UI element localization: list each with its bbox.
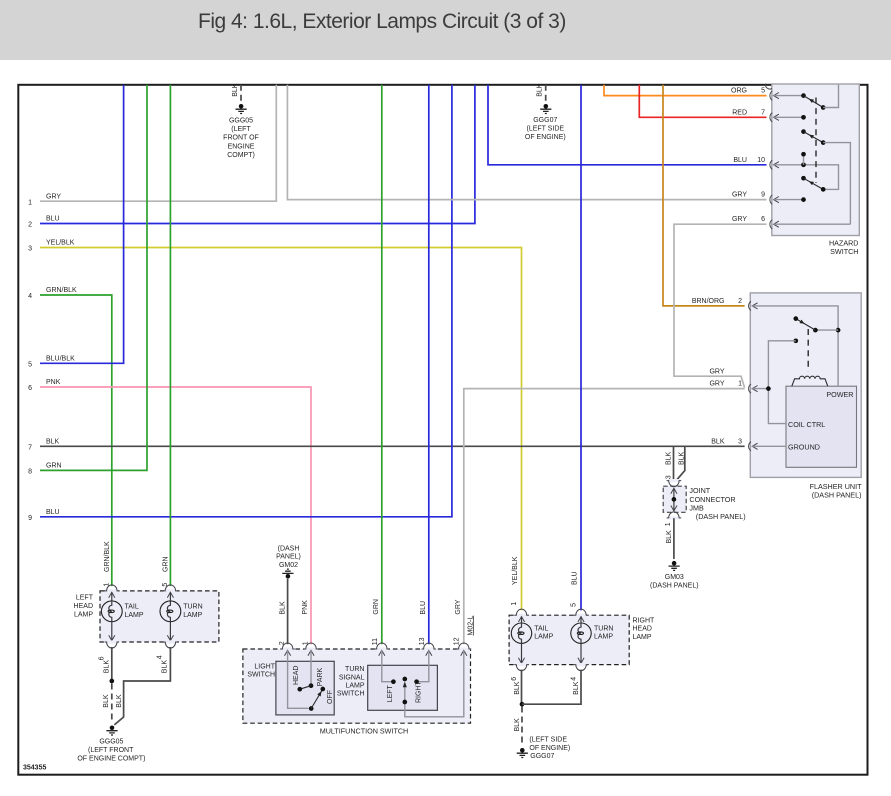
svg-text:BLU: BLU	[571, 571, 578, 585]
wire 4 GRN/BLK to left head lamp	[40, 295, 112, 586]
svg-text:GRN/BLK: GRN/BLK	[104, 541, 111, 572]
svg-text:BLK: BLK	[232, 83, 239, 97]
svg-text:OF ENGINE): OF ENGINE)	[525, 134, 566, 141]
svg-text:LAMP: LAMP	[633, 634, 652, 641]
svg-text:BLU: BLU	[46, 509, 60, 516]
left head lamp box	[100, 591, 219, 642]
svg-text:1: 1	[28, 199, 32, 206]
svg-text:GRY: GRY	[709, 368, 724, 375]
wire BLK right lamp pin 6	[521, 670, 523, 705]
wire 1 GRY to top border	[40, 85, 276, 201]
joint connector internal	[673, 488, 675, 511]
right lamp pin 4	[580, 643, 582, 663]
svg-text:(LEFT SIDE: (LEFT SIDE	[526, 126, 564, 133]
svg-text:3: 3	[666, 475, 673, 479]
svg-text:GRY: GRY	[732, 216, 747, 223]
flasher relay switch	[752, 306, 838, 386]
svg-text:COIL CTRL: COIL CTRL	[788, 420, 825, 429]
flasher coil ctrl wire	[793, 338, 798, 343]
right tail lamp bulb	[521, 617, 523, 623]
svg-text:SWITCH: SWITCH	[830, 247, 858, 256]
svg-text:8: 8	[28, 469, 32, 476]
wire BLU from top to right lamp turn	[580, 85, 582, 611]
svg-text:Fig 4: 1.6L, Exterior Lamps Ci: Fig 4: 1.6L, Exterior Lamps Circuit (3 o…	[198, 10, 566, 33]
wire BLK left lamp pin 6 to ground	[111, 647, 113, 681]
flasher inner block	[786, 386, 857, 467]
wire 6 PNK to multifunction switch	[40, 387, 311, 644]
hazard pin 9 contact	[774, 199, 804, 201]
hazard switch 3 contacts	[801, 176, 806, 181]
svg-text:3: 3	[738, 438, 742, 445]
svg-text:1: 1	[665, 522, 672, 526]
wire GRN from top to multifunction pin 11	[381, 85, 383, 644]
svg-text:(DASH PANEL): (DASH PANEL)	[812, 491, 862, 500]
svg-text:LIGHT: LIGHT	[254, 663, 275, 670]
svg-text:PNK: PNK	[302, 600, 309, 615]
svg-text:GGG07: GGG07	[533, 117, 557, 124]
wire 2 BLU to top border	[40, 85, 475, 224]
svg-text:12: 12	[453, 637, 460, 645]
svg-text:RED: RED	[732, 109, 747, 116]
title bar	[0, 0, 891, 60]
svg-text:BLK: BLK	[514, 681, 521, 695]
hazard pin 7 contact	[774, 116, 804, 118]
wire GRN from top to left lamp turn	[169, 85, 171, 586]
turn signal common	[402, 677, 407, 682]
svg-text:BLK: BLK	[103, 694, 110, 708]
svg-text:GGG05: GGG05	[229, 118, 253, 125]
svg-text:10: 10	[757, 157, 765, 164]
svg-text:OF ENGINE COMPT): OF ENGINE COMPT)	[77, 755, 145, 762]
svg-text:GGG07: GGG07	[530, 753, 554, 760]
svg-text:BLU: BLU	[733, 157, 747, 164]
light switch blade	[300, 686, 311, 690]
svg-text:BRN/ORG: BRN/ORG	[692, 298, 725, 305]
hazard pin 6 internal wire	[774, 223, 851, 225]
svg-text:GRN: GRN	[373, 599, 380, 615]
right head lamp box	[509, 615, 629, 664]
svg-text:GRN: GRN	[163, 556, 170, 572]
svg-text:GRY: GRY	[46, 193, 61, 200]
svg-text:TAIL: TAIL	[125, 603, 139, 610]
svg-text:BLU: BLU	[420, 601, 427, 615]
svg-text:6: 6	[28, 385, 32, 392]
multifunction switch box	[243, 649, 471, 723]
joint connector JMB box	[663, 486, 686, 512]
left tail lamp bulb	[111, 592, 113, 601]
right turn lamp bulb	[580, 617, 582, 623]
svg-text:LAMP: LAMP	[345, 682, 364, 689]
svg-text:5: 5	[28, 362, 32, 369]
svg-text:(LEFT SIDE: (LEFT SIDE	[529, 736, 567, 743]
flasher pin 3 ground wire	[752, 445, 786, 447]
svg-text:HEAD: HEAD	[633, 626, 652, 633]
svg-text:13: 13	[419, 637, 426, 645]
hazard switch gang dashed link	[815, 98, 817, 184]
ground GM02 symbol	[286, 574, 291, 579]
turn signal lamp switch inner box	[368, 665, 438, 710]
turn signal right contact	[419, 650, 429, 681]
hazard switch 2 contacts	[801, 129, 806, 134]
svg-text:7: 7	[28, 445, 32, 452]
svg-text:GRN: GRN	[46, 463, 62, 470]
svg-text:BLK: BLK	[536, 83, 543, 97]
wire RED from top to hazard pin 7	[639, 85, 766, 118]
wire BLK right lamp pin 4	[522, 670, 581, 705]
svg-text:5: 5	[761, 88, 765, 95]
wire GRY flasher pin1 to multifunction pin 12	[464, 389, 745, 645]
svg-text:6: 6	[761, 216, 765, 223]
svg-text:FLASHER UNIT: FLASHER UNIT	[810, 482, 863, 491]
svg-text:YEL/BLK: YEL/BLK	[512, 556, 519, 585]
svg-text:GRY: GRY	[732, 192, 747, 199]
wire BRN/ORG from top to flasher pin 2	[663, 85, 745, 306]
svg-text:BLK: BLK	[711, 438, 725, 445]
svg-text:GRN/BLK: GRN/BLK	[46, 287, 77, 294]
svg-text:TURN: TURN	[183, 603, 202, 610]
joint connector pin 1	[671, 506, 677, 511]
svg-text:HEAD: HEAD	[74, 603, 93, 610]
light switch pin 1 wire	[310, 650, 312, 685]
svg-text:PANEL): PANEL)	[276, 554, 301, 561]
wire GRY from top to hazard pin 9	[287, 85, 766, 200]
svg-text:ENGINE: ENGINE	[228, 143, 255, 150]
wire ORG from top to hazard pin 5	[604, 85, 767, 96]
svg-text:HEAD: HEAD	[293, 666, 300, 685]
svg-text:GM03: GM03	[665, 574, 684, 581]
hazard switch 1 contacts	[774, 95, 804, 97]
svg-text:GRY: GRY	[709, 381, 724, 388]
svg-text:1: 1	[738, 381, 742, 388]
svg-text:1: 1	[511, 602, 518, 606]
svg-text:4: 4	[571, 677, 578, 681]
wire BLK left lamp pin 4 to ground	[114, 647, 170, 725]
svg-text:YEL/BLK: YEL/BLK	[46, 240, 75, 247]
svg-text:BLK: BLK	[279, 601, 286, 615]
svg-text:RIGHT: RIGHT	[633, 617, 656, 624]
svg-text:RIGHT: RIGHT	[415, 681, 422, 704]
hazard switch box	[772, 84, 860, 236]
wire 8 GRN to top border	[40, 85, 147, 471]
flasher pin 1 junction	[752, 388, 768, 390]
svg-text:LAMP: LAMP	[183, 612, 202, 619]
svg-text:ORG: ORG	[731, 88, 747, 95]
hazard pin 10 contacts	[774, 165, 839, 190]
svg-text:BLK: BLK	[104, 660, 111, 674]
svg-text:BLK: BLK	[666, 451, 673, 465]
svg-text:GGG05: GGG05	[99, 738, 123, 745]
svg-text:LEFT: LEFT	[387, 684, 394, 702]
svg-text:BLU/BLK: BLU/BLK	[46, 356, 75, 363]
svg-text:11: 11	[372, 638, 379, 645]
svg-text:POWER: POWER	[826, 390, 853, 399]
wire 3 YEL/BLK to right head lamp	[40, 248, 522, 611]
svg-text:TURN: TURN	[594, 625, 613, 632]
svg-text:9: 9	[761, 192, 765, 199]
svg-text:(LEFT FRONT: (LEFT FRONT	[88, 747, 134, 754]
svg-text:7: 7	[761, 109, 765, 116]
svg-text:4: 4	[157, 655, 164, 659]
svg-text:(DASH PANEL): (DASH PANEL)	[696, 512, 746, 521]
svg-text:GRY: GRY	[455, 599, 462, 614]
svg-text:2: 2	[28, 222, 32, 229]
svg-text:4: 4	[28, 293, 32, 300]
svg-text:(LEFT: (LEFT	[231, 126, 251, 133]
svg-text:BLK: BLK	[162, 660, 169, 674]
left lamp pin 6	[111, 622, 113, 641]
svg-text:2: 2	[738, 298, 742, 305]
svg-text:OFF: OFF	[327, 690, 334, 704]
svg-text:OF ENGINE): OF ENGINE)	[529, 745, 570, 752]
turn signal left contact	[382, 650, 391, 681]
light switch inner box	[276, 661, 334, 715]
flasher coil	[792, 376, 828, 386]
svg-text:LAMP: LAMP	[125, 612, 144, 619]
svg-text:GROUND: GROUND	[788, 442, 820, 451]
hazard top-left connector arc	[765, 84, 772, 89]
svg-text:BLU: BLU	[46, 216, 60, 223]
light switch pin 2 wire	[288, 650, 309, 708]
svg-text:FRONT OF: FRONT OF	[223, 135, 259, 142]
svg-text:PNK: PNK	[46, 379, 61, 386]
left lamp pin 4	[169, 622, 171, 641]
light switch off contact	[311, 689, 323, 709]
svg-text:9: 9	[28, 515, 32, 522]
svg-text:PARK: PARK	[317, 667, 324, 686]
svg-text:M02-L: M02-L	[467, 616, 474, 636]
wire 5 BLU/BLK to top border	[40, 85, 124, 364]
ground GGG05 top symbol	[239, 104, 244, 109]
flasher unit box	[750, 293, 861, 478]
svg-text:BLK: BLK	[46, 439, 60, 446]
svg-text:3: 3	[28, 246, 32, 253]
flasher dashed actuator link	[807, 329, 809, 372]
ground GGG05 bottom symbol	[110, 726, 115, 731]
wire 7 BLK to flasher ground pin	[40, 445, 745, 447]
svg-text:354355: 354355	[23, 765, 46, 772]
wire BLU from top to hazard pin 10	[488, 85, 767, 165]
svg-text:GM02: GM02	[279, 562, 298, 569]
svg-text:(DASH PANEL): (DASH PANEL)	[650, 583, 699, 590]
svg-text:LAMP: LAMP	[534, 634, 553, 641]
svg-text:TAIL: TAIL	[534, 625, 548, 632]
svg-text:6: 6	[511, 677, 518, 681]
wire BLU from top to multifunction pin 13	[428, 85, 430, 644]
svg-text:MULTIFUNCTION SWITCH: MULTIFUNCTION SWITCH	[320, 727, 409, 736]
svg-text:SIGNAL: SIGNAL	[339, 674, 365, 681]
svg-text:LAMP: LAMP	[594, 634, 613, 641]
svg-text:BLK: BLK	[573, 681, 580, 695]
left turn lamp bulb	[169, 592, 171, 601]
wire GRY hazard pin 6 to flasher pin 1	[674, 224, 767, 387]
ground GGG07 top symbol	[544, 104, 549, 109]
ground GM03 symbol	[672, 561, 677, 566]
svg-text:(DASH: (DASH	[278, 545, 300, 552]
svg-text:BLK: BLK	[514, 718, 521, 732]
svg-text:SWITCH: SWITCH	[337, 691, 365, 698]
svg-text:BLK: BLK	[666, 530, 673, 544]
right lamp pin 6	[521, 643, 523, 663]
svg-text:5: 5	[570, 603, 577, 607]
svg-text:BLK: BLK	[116, 694, 123, 708]
svg-text:6: 6	[99, 656, 106, 660]
wire 9 BLU to top border	[40, 85, 452, 517]
svg-text:SWITCH: SWITCH	[247, 672, 275, 679]
svg-text:LAMP: LAMP	[74, 611, 93, 618]
svg-text:COMPT): COMPT)	[227, 152, 255, 159]
ground GGG07 bottom symbol	[520, 748, 525, 753]
svg-text:TURN: TURN	[345, 666, 364, 673]
svg-text:LEFT: LEFT	[76, 595, 94, 602]
